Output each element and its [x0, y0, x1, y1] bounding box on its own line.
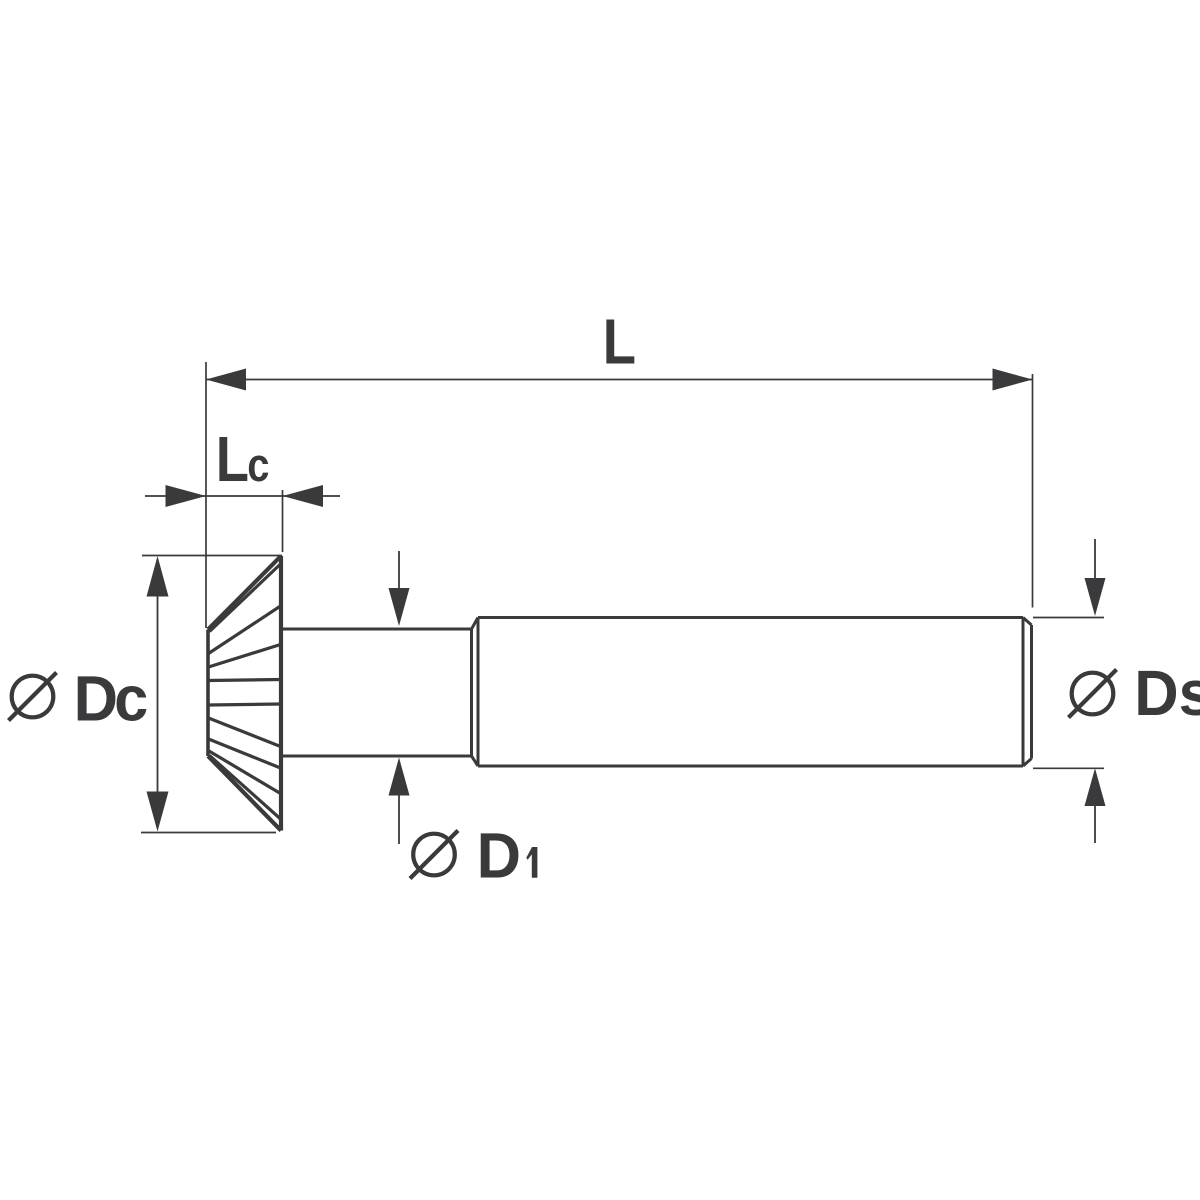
cutter head bottom slant edge [208, 756, 281, 831]
neck-shank step inner edge [470, 629, 473, 756]
extension line left (head front) [205, 362, 207, 628]
neck-shank chamfer top [472, 618, 479, 630]
tooth line upper mid [209, 680, 281, 681]
extension line Lc right [282, 490, 284, 552]
extension line right (shank end) [1032, 374, 1034, 608]
dimension Ds upper leader [1094, 539, 1096, 578]
dimension D1 upper leader [398, 551, 400, 588]
shank bottom edge [478, 765, 1023, 768]
cutter head right edge [279, 556, 283, 831]
diameter symbol of D1 [410, 831, 458, 879]
tooth line inner top [210, 565, 281, 632]
dimension Dc down arrow [147, 792, 169, 832]
dimension D1 down arrow [389, 588, 410, 626]
svg-text:L: L [603, 305, 636, 377]
svg-text:D: D [477, 821, 521, 892]
shank top edge [478, 616, 1023, 619]
svg-text:Ds: Ds [1134, 658, 1200, 729]
tooth line upper 2 [209, 645, 281, 668]
shank end chamfer bottom [1023, 759, 1032, 767]
dimension Lc line [145, 495, 340, 497]
tooth line lower mid [209, 704, 281, 705]
cutter head top slant edge [208, 556, 281, 630]
dimension Lc right arrow (pointing left) [283, 485, 324, 507]
label D1 digit [526, 847, 537, 878]
neck bottom edge [281, 755, 472, 758]
shank left face edge [477, 618, 480, 767]
tooth line lower 1 [209, 718, 281, 747]
shank end chamfer top [1023, 618, 1032, 626]
extension tick Dc top [142, 555, 282, 557]
extension tick Dc bottom [141, 832, 276, 834]
svg-text:Dc: Dc [74, 663, 149, 734]
diameter symbol of Ds [1069, 670, 1117, 718]
dimension Dc line [157, 596, 159, 792]
shank right inner edge [1022, 618, 1025, 767]
tooth line inner bottom [210, 756, 281, 819]
tooth line lower 2 [209, 739, 281, 768]
dimension D1 up arrow [389, 758, 410, 796]
extension tick Ds bottom [1033, 767, 1104, 769]
dimension Ds up arrow [1085, 768, 1106, 806]
dimension L line [206, 379, 1033, 381]
dimension L left arrow [206, 369, 246, 391]
dimension Ds down arrow [1085, 578, 1106, 616]
dimension Ds lower leader [1094, 806, 1096, 843]
extension tick Ds top [1033, 617, 1104, 619]
tooth line lower 3 [209, 751, 281, 794]
neck-shank chamfer bottom [472, 756, 479, 766]
cutter head left edge [206, 630, 210, 757]
dimension Lc left arrow (pointing right) [166, 485, 207, 507]
dimension L right arrow [993, 369, 1033, 391]
shank end face edge [1030, 625, 1033, 759]
diameter symbol of Dc [9, 673, 57, 721]
dimension D1 lower leader [398, 796, 400, 845]
neck top edge [281, 628, 472, 631]
tooth line upper 1 [209, 606, 281, 654]
dimension Dc up arrow [147, 556, 169, 597]
